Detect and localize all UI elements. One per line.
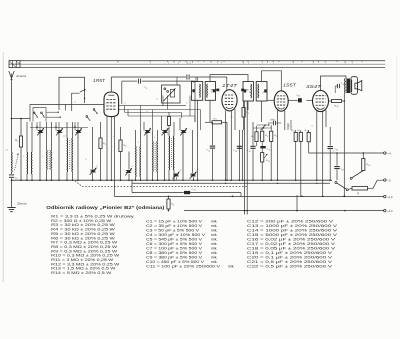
svg-text:15: 15 — [269, 149, 271, 151]
transformer T1 primary — [26, 122, 29, 180]
IF transformer IF1a box — [192, 82, 203, 101]
switch contact S2 — [93, 109, 97, 114]
wire loop top-left — [59, 77, 85, 110]
svg-text:12: 12 — [299, 131, 301, 133]
trimmer capacitor CP1 — [90, 127, 97, 180]
svg-text:mik.: mik. — [211, 219, 218, 223]
resistor R3a — [99, 122, 106, 180]
wire to R2 branch — [12, 118, 31, 120]
transformer T4 secondary — [156, 130, 159, 180]
transformer T3 secondary — [139, 130, 142, 180]
oscillator coil L2 core — [69, 140, 71, 170]
svg-text:10: 10 — [194, 190, 196, 192]
resistor R9 — [270, 125, 278, 180]
terminal +2 — [384, 179, 391, 183]
svg-text:mik.: mik. — [211, 246, 218, 250]
svg-text:2: 2 — [168, 63, 169, 65]
wire det hlines — [253, 124, 272, 128]
resistor R7 — [251, 126, 258, 146]
filament bus — [132, 183, 330, 184]
wire antenna lead — [11, 82, 13, 153]
variable capacitor CV3 tuning gang — [75, 128, 82, 135]
capacitor C13 — [268, 119, 281, 125]
wire det risers — [239, 101, 247, 215]
tube V3 1S5T — [274, 91, 288, 111]
wire trimmers to ground bus — [144, 116, 183, 180]
label 1S5T — [283, 82, 296, 87]
trimmer capacitor CT3 — [180, 128, 187, 135]
oscillator coil L3 primary — [168, 136, 171, 180]
wire C16 to V3 grid — [306, 99, 312, 101]
svg-text:C21 = 0,5 μF ± 20% 250/600 V: C21 = 0,5 μF ± 20% 250/600 V — [247, 260, 333, 264]
svg-text:7: 7 — [293, 63, 294, 65]
wire gang bus horizontals — [30, 127, 88, 128]
svg-text:C3 = 50 pF ± 5% 500 V: C3 = 50 pF ± 5% 500 V — [146, 228, 200, 232]
svg-text:21: 21 — [341, 170, 344, 172]
svg-text:mik.: mik. — [211, 255, 218, 259]
trimmer capacitor CP2 — [125, 140, 132, 180]
wire IF2 bottoms — [248, 101, 262, 122]
band switch S1 — [30, 105, 66, 122]
svg-text:Antena: Antena — [15, 74, 26, 78]
title text — [46, 205, 165, 210]
variable capacitor CV1 tuning gang — [37, 128, 44, 135]
switch W1 blade — [350, 171, 363, 180]
svg-text:1: 1 — [352, 63, 353, 65]
wire V1 grid cap — [122, 81, 195, 122]
svg-text:1T4T: 1T4T — [222, 83, 238, 88]
svg-text:6: 6 — [178, 63, 179, 65]
svg-text:1: 1 — [203, 92, 204, 94]
svg-text:10: 10 — [293, 131, 295, 133]
svg-text:1: 1 — [273, 63, 274, 65]
svg-text:Ziemia: Ziemia — [16, 202, 27, 206]
svg-text:6: 6 — [173, 204, 174, 206]
output transformer TR1 — [345, 79, 352, 94]
component value labels scatter — [6, 91, 335, 172]
svg-text:Odbiornik radiowy „Pionier B2”: Odbiornik radiowy „Pionier B2” (odmiana) — [46, 205, 165, 210]
wire V2 grid blobs — [211, 77, 249, 91]
wire risers mixer — [125, 96, 201, 131]
resistor R8 — [261, 128, 269, 152]
wire gang caps to ground bus — [40, 133, 78, 181]
transformer T3 primary — [135, 130, 138, 180]
svg-text:19: 19 — [249, 151, 251, 153]
svg-text:1: 1 — [345, 63, 346, 65]
svg-text:5: 5 — [248, 113, 249, 115]
svg-text:mik.: mik. — [211, 251, 218, 255]
svg-text:7: 7 — [253, 137, 254, 139]
resistor R5 — [242, 101, 249, 130]
svg-text:C2 = 35 pF ± 10% 500 V: C2 = 35 pF ± 10% 500 V — [146, 224, 203, 228]
wire V4 anode — [321, 76, 347, 90]
svg-text:R14 = 5 MΩ ± 20% 0,5 W: R14 = 5 MΩ ± 20% 0,5 W — [51, 271, 112, 275]
terminal minus12 — [384, 195, 393, 199]
svg-text:2: 2 — [248, 63, 249, 65]
svg-text:13: 13 — [273, 120, 275, 122]
oscillator coil L2 secondary — [71, 122, 74, 180]
wire V2 pins — [226, 109, 235, 180]
oscillator coil L2 primary — [66, 122, 69, 180]
resistor R2 — [15, 119, 22, 181]
resistor R14 grid — [329, 100, 346, 109]
capacitor C12 — [206, 122, 215, 180]
label 1R5T — [93, 78, 105, 83]
capacitor C16 blob — [296, 95, 302, 103]
wire V1 anode to IF1 — [111, 77, 227, 92]
capacitor C18 — [233, 143, 242, 153]
svg-text:22: 22 — [342, 84, 345, 86]
oscillator trimmer arrow — [164, 88, 176, 101]
svg-text:C13 = 1000 pF ± 20% 250/600 V: C13 = 1000 pF ± 20% 250/600 V — [247, 224, 338, 228]
svg-text:9: 9 — [221, 63, 222, 65]
table column C1-C11 values — [146, 219, 235, 268]
capacitor C21 — [334, 153, 344, 180]
svg-text:3: 3 — [216, 119, 217, 121]
tuning gang dashed link — [75, 181, 247, 187]
svg-text:3: 3 — [105, 144, 106, 146]
resistor R4 — [119, 127, 127, 180]
svg-text:C22 = 0,5 μF ± 20% 250/600 V: C22 = 0,5 μF ± 20% 250/600 V — [247, 264, 333, 268]
oscillator coil L3 secondary — [172, 122, 175, 180]
svg-text:2: 2 — [150, 63, 151, 65]
IF transformer IF2b box — [256, 82, 267, 102]
wire bus b — [118, 109, 201, 111]
wire IF1a top — [197, 77, 199, 81]
capacitor C10 — [131, 179, 241, 196]
svg-text:C12 = 200 pF ± 20% 250/600 V: C12 = 200 pF ± 20% 250/600 V — [247, 219, 334, 223]
wire gang cap feeds — [37, 122, 78, 131]
svg-text:1R5T: 1R5T — [93, 78, 105, 83]
ground bus — [11, 179, 332, 181]
resistor R10 — [291, 130, 297, 180]
trimmer arrow top — [80, 89, 88, 99]
detector trimmer arrow — [260, 125, 265, 131]
transformer T1 secondary — [30, 122, 33, 180]
wire bus d — [128, 115, 195, 117]
svg-text:mik.: mik. — [211, 242, 218, 246]
wire V3 anode out — [288, 99, 298, 101]
svg-text:7: 7 — [217, 63, 218, 65]
svg-text:mik.: mik. — [211, 237, 218, 241]
wire filament drops — [297, 195, 302, 211]
resistor R11 volume — [261, 153, 270, 181]
wire V4 pins — [317, 110, 326, 196]
svg-text:L1: L1 — [6, 150, 8, 152]
svg-text:C19 = 0,1 μF ± 20% 250/600 V: C19 = 0,1 μF ± 20% 250/600 V — [247, 251, 333, 255]
svg-text:10 2 1: 10 2 1 — [186, 63, 191, 65]
trimmer capacitor CT2 — [162, 128, 169, 135]
wire det col risers — [288, 112, 296, 130]
svg-text:1S5T: 1S5T — [283, 82, 296, 87]
svg-text:C8 = 380 pF ± 5% 500 V: C8 = 380 pF ± 5% 500 V — [146, 251, 203, 255]
svg-text:6: 6 — [146, 88, 147, 90]
svg-text:1: 1 — [325, 63, 326, 65]
table column R values — [51, 215, 134, 276]
terminal +4 — [384, 152, 391, 156]
svg-text:C15 = 5000 pF ± 20% 250/600 V: C15 = 5000 pF ± 20% 250/600 V — [247, 233, 338, 237]
svg-text:mik.: mik. — [211, 233, 218, 237]
node antenna junction — [11, 118, 13, 120]
wire V3 pins — [278, 111, 285, 181]
trimmer capacitor CP3 — [173, 172, 180, 181]
supply bus plus A — [184, 210, 384, 212]
tube V4 3S4T — [313, 90, 329, 111]
wire IF1 bottoms — [198, 100, 211, 180]
wire IF1b link — [210, 75, 248, 82]
IF transformer IF2a box — [243, 82, 254, 102]
wire speaker return — [334, 86, 336, 93]
svg-text:C1 = 15 pF ± 10% 500 V: C1 = 15 pF ± 10% 500 V — [146, 219, 203, 223]
resistor R3 horizontal — [205, 118, 227, 180]
resistor R6 filament — [167, 196, 174, 212]
svg-text:mik.: mik. — [211, 228, 218, 232]
wire loop inner — [72, 93, 80, 111]
svg-text:11: 11 — [268, 161, 270, 163]
resistor R12 — [297, 130, 302, 196]
coil L1 antenna coil — [12, 152, 19, 173]
svg-text:–2: –2 — [387, 179, 391, 183]
svg-text:R: R — [357, 193, 359, 196]
capacitor C19 — [247, 122, 256, 180]
wire bus a — [118, 105, 186, 107]
wire ground lead — [11, 180, 13, 207]
wire V3 grid in — [267, 99, 274, 101]
resistor R13v — [305, 130, 311, 153]
switch W2 blade — [335, 182, 348, 191]
tube V1 1R5T — [104, 92, 119, 117]
trimmer capacitor CP4 — [190, 130, 197, 180]
trimmer capacitor CT1 — [144, 128, 151, 135]
oscillator coil L3 core — [171, 138, 173, 168]
wire transformer down — [344, 93, 346, 197]
svg-text:C11 = 100 pF ± 20% 250/600 V: C11 = 100 pF ± 20% 250/600 V — [146, 264, 221, 268]
svg-text:C7 = 100 pF ± 5% 500 V: C7 = 100 pF ± 5% 500 V — [146, 246, 203, 250]
dial scale body — [9, 61, 385, 68]
transformer T2 primary — [46, 122, 49, 180]
svg-text:+1,2: +1,2 — [387, 195, 393, 199]
resistor R15 — [362, 153, 371, 171]
svg-text:C10 = 450 pF ± 5% 500 V: C10 = 450 pF ± 5% 500 V — [146, 260, 205, 264]
svg-text:18: 18 — [235, 151, 237, 153]
capacitor C20 — [328, 127, 338, 180]
wire plus4 line — [309, 152, 384, 154]
capacitor C6 — [138, 79, 147, 90]
transformer T4 primary — [152, 130, 155, 180]
antenna — [9, 71, 27, 81]
svg-text:C9 = 380 pF ± 5% 500 V: C9 = 380 pF ± 5% 500 V — [146, 255, 203, 259]
svg-text:C16 = 0,02 μF ± 20% 250/600 V: C16 = 0,02 μF ± 20% 250/600 V — [247, 237, 336, 241]
svg-text:2: 2 — [16, 141, 18, 143]
wire bus c — [125, 112, 182, 114]
svg-text:mik.: mik. — [211, 260, 218, 264]
svg-text:20: 20 — [335, 149, 338, 151]
svg-text:1: 1 — [262, 63, 263, 65]
loudspeaker LS — [351, 77, 362, 95]
svg-text:8: 8 — [313, 63, 314, 65]
variable capacitor CV2 tuning gang — [56, 128, 63, 135]
transformer T2 core — [48, 150, 50, 170]
svg-text:3S4T: 3S4T — [306, 84, 322, 89]
svg-text:C17 = 0,02 μF ± 20% 250/600 V: C17 = 0,02 μF ± 20% 250/600 V — [247, 242, 336, 246]
dial tick marks — [118, 61, 362, 65]
oscillator box — [162, 85, 181, 103]
tube V2 1T4T — [222, 90, 237, 111]
transformer T2 secondary — [50, 122, 53, 180]
svg-text:16: 16 — [298, 96, 300, 98]
svg-text:9: 9 — [276, 136, 277, 138]
svg-text:C4 = 300 pF ± 10% 500 V: C4 = 300 pF ± 10% 500 V — [146, 233, 206, 237]
resistor R16 — [348, 180, 384, 195]
capacitor C15 — [260, 146, 270, 151]
svg-text:12: 12 — [208, 150, 210, 152]
capacitor C2 antenna — [9, 173, 18, 181]
transformer T4 core — [154, 143, 156, 170]
terminal minus14 — [384, 209, 393, 213]
svg-text:mik.: mik. — [228, 264, 235, 268]
svg-text:4: 4 — [243, 63, 244, 65]
svg-text:13: 13 — [307, 131, 309, 133]
svg-text:C6 = 300 pF ± 5% 500 V: C6 = 300 pF ± 5% 500 V — [146, 242, 203, 246]
wire IF2 link to V3 — [262, 71, 282, 91]
svg-text:8: 8 — [267, 136, 268, 138]
label 1T4T — [222, 83, 238, 88]
svg-text:C18 = 0,05 μF ± 20% 250/600 V: C18 = 0,05 μF ± 20% 250/600 V — [247, 246, 336, 250]
svg-text:C5 = 545 pF ± 5% 500 V: C5 = 545 pF ± 5% 500 V — [146, 237, 203, 241]
svg-text:15: 15 — [368, 165, 370, 167]
table column C12-C22 values — [247, 219, 338, 268]
svg-text:–4: –4 — [387, 152, 391, 156]
svg-text:mik.: mik. — [211, 224, 218, 228]
ground symbol Ziemia — [7, 202, 27, 212]
IF transformer IF1b box — [205, 82, 215, 101]
label 3S4T — [306, 84, 322, 89]
supply bus minus B — [115, 196, 384, 198]
wire V1 pins down — [107, 117, 115, 197]
svg-text:C14 = 1000 pF ± 20% 250/600 V: C14 = 1000 pF ± 20% 250/600 V — [247, 228, 338, 232]
svg-text:C20 = 0,1 μF ± 20% 200/600 V: C20 = 0,1 μF ± 20% 200/600 V — [247, 255, 333, 259]
capacitor C4 series — [187, 75, 194, 85]
capacitor C22 — [335, 83, 344, 88]
wire switch to tube row — [66, 104, 105, 106]
switch contact S3 — [86, 116, 90, 121]
svg-text:+1,4: +1,4 — [387, 209, 393, 213]
resistor R17 osc grid — [168, 112, 171, 136]
